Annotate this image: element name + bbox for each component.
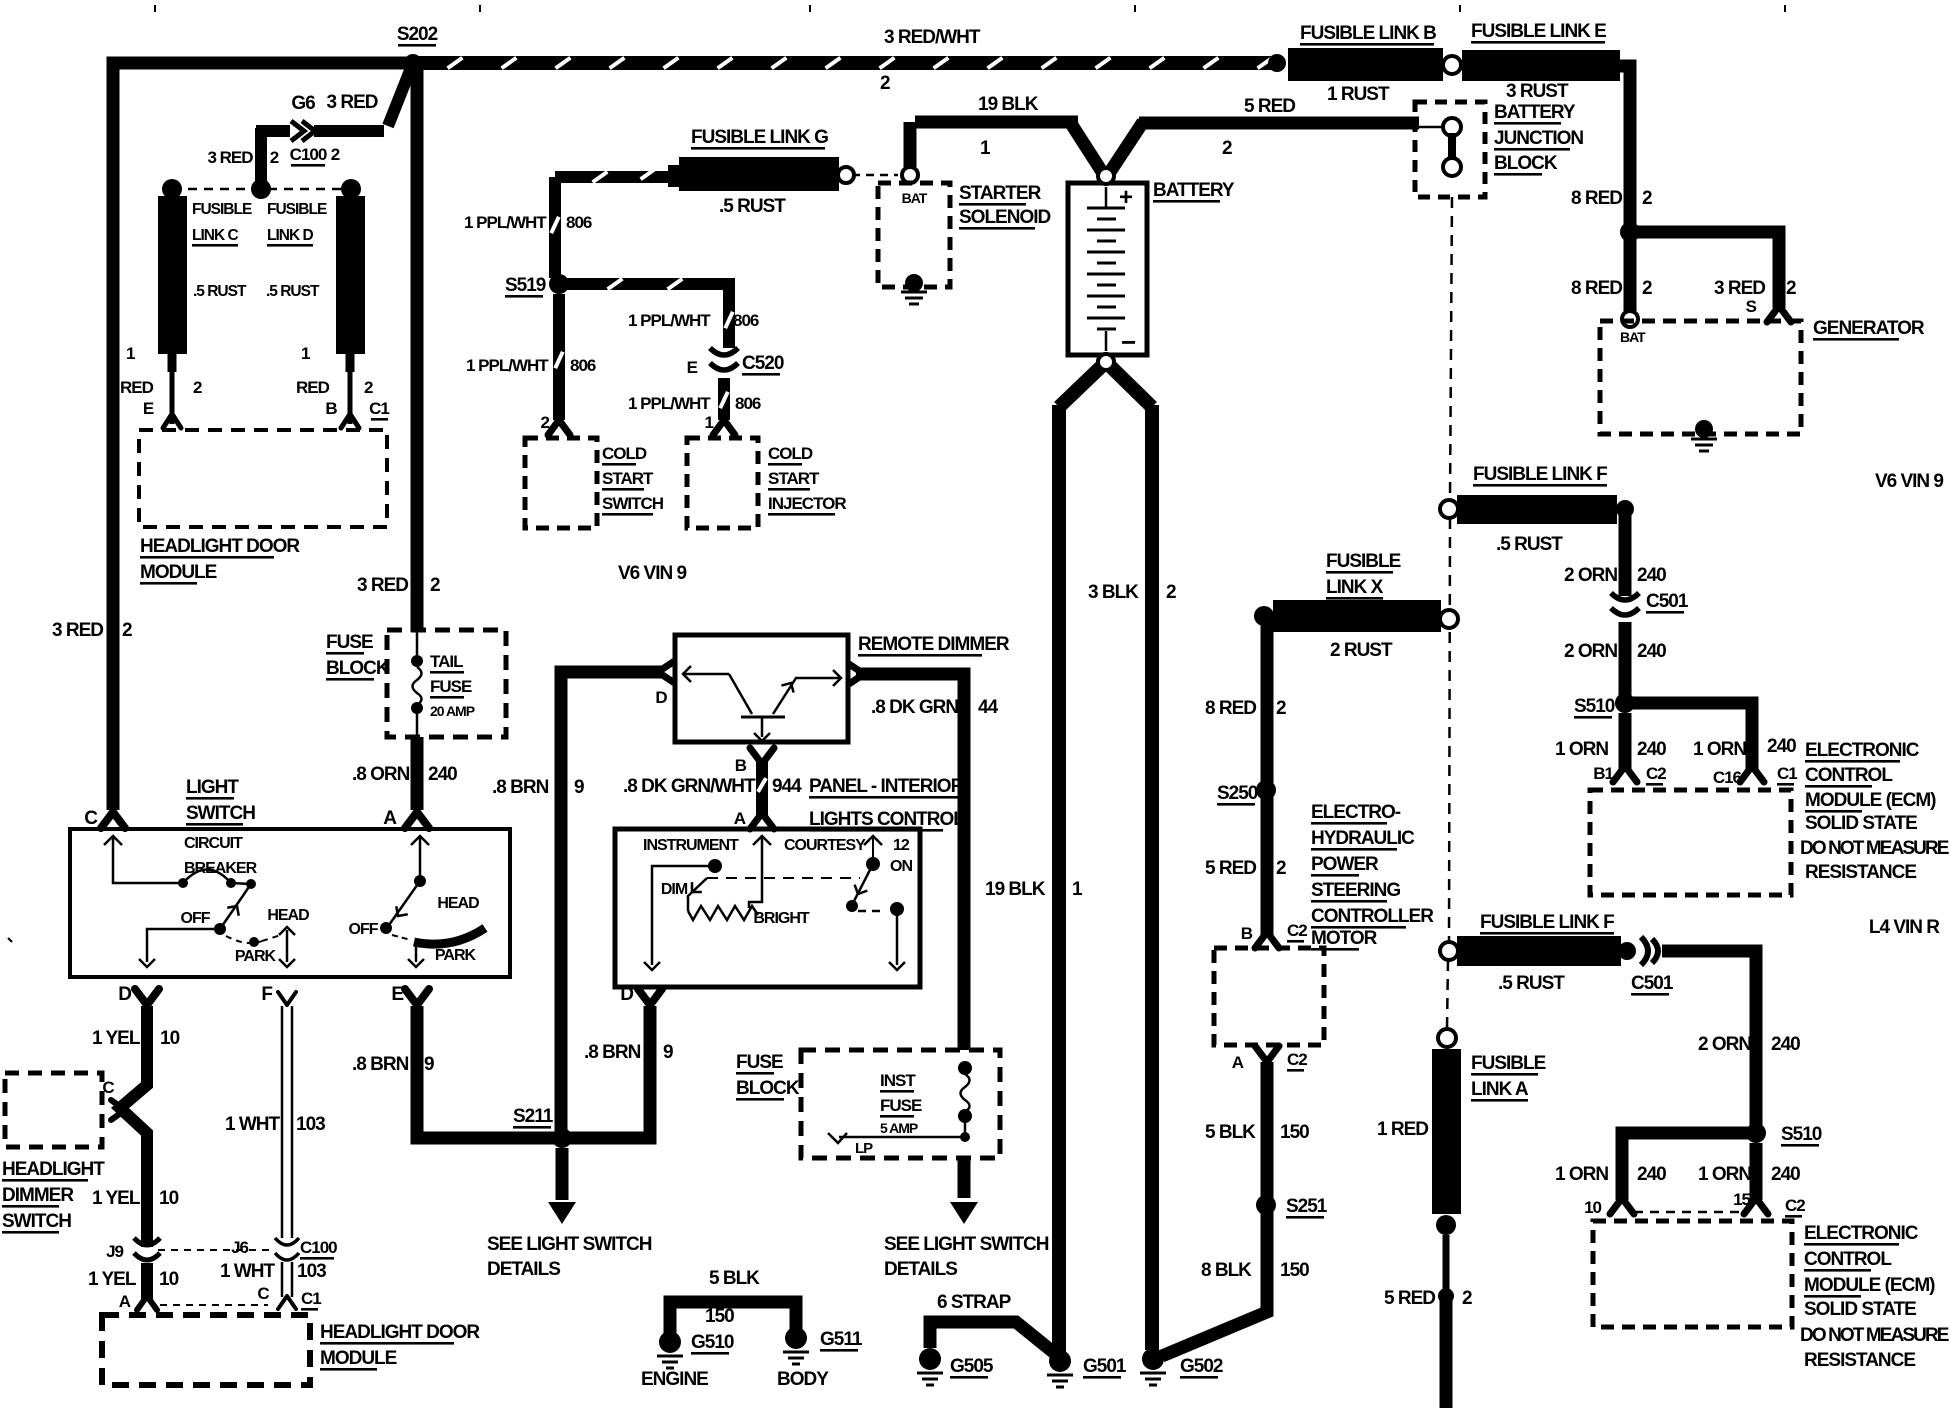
svg-text:INST: INST xyxy=(880,1071,916,1090)
svg-text:.8 BRN: .8 BRN xyxy=(492,777,549,798)
svg-text:POWER: POWER xyxy=(1311,854,1379,875)
svg-text:10: 10 xyxy=(1584,1198,1601,1217)
svg-text:8 RED: 8 RED xyxy=(1205,698,1256,719)
svg-text:.8 DK GRN: .8 DK GRN xyxy=(871,697,958,718)
svg-text:J9: J9 xyxy=(106,1242,123,1261)
svg-text:9: 9 xyxy=(574,777,584,798)
svg-text:SOLID STATE: SOLID STATE xyxy=(1804,1299,1916,1320)
svg-text:HYDRAULIC: HYDRAULIC xyxy=(1311,828,1415,849)
svg-text:.8 BRN: .8 BRN xyxy=(584,1042,641,1063)
svg-text:BREAKER: BREAKER xyxy=(184,860,258,877)
svg-text:S510: S510 xyxy=(1781,1124,1822,1145)
svg-text:C: C xyxy=(257,1284,269,1303)
svg-text:G505: G505 xyxy=(950,1356,994,1377)
svg-text:ENGINE: ENGINE xyxy=(641,1369,708,1390)
svg-text:C1: C1 xyxy=(1777,764,1797,783)
svg-text:E: E xyxy=(687,358,698,377)
svg-text:ELECTRONIC: ELECTRONIC xyxy=(1804,1223,1919,1244)
svg-text:DO NOT MEASURE: DO NOT MEASURE xyxy=(1800,838,1949,859)
svg-text:240: 240 xyxy=(1771,1164,1800,1185)
svg-text:BATTERY: BATTERY xyxy=(1153,180,1235,201)
svg-text:BATTERY: BATTERY xyxy=(1494,102,1576,123)
svg-text:1 RUST: 1 RUST xyxy=(1327,84,1390,105)
svg-text:FUSIBLE LINK B: FUSIBLE LINK B xyxy=(1300,23,1436,44)
svg-text:1: 1 xyxy=(705,413,714,432)
svg-text:1 ORN: 1 ORN xyxy=(1698,1164,1751,1185)
svg-text:RED: RED xyxy=(120,378,154,397)
svg-text:BAT: BAT xyxy=(1620,329,1646,345)
svg-text:2: 2 xyxy=(364,378,373,397)
svg-text:ON: ON xyxy=(890,858,912,875)
svg-text:BLOCK: BLOCK xyxy=(326,658,390,679)
svg-text:19 BLK: 19 BLK xyxy=(978,94,1039,115)
svg-text:.5 RUST: .5 RUST xyxy=(266,283,320,300)
svg-text:DIM: DIM xyxy=(661,881,688,898)
svg-text:3 BLK: 3 BLK xyxy=(1088,582,1139,603)
svg-text:3 RED: 3 RED xyxy=(1714,278,1765,299)
svg-text:STEERING: STEERING xyxy=(1311,880,1400,901)
svg-text:LIGHT: LIGHT xyxy=(186,777,239,798)
svg-text:.5 RUST: .5 RUST xyxy=(1496,534,1563,555)
svg-text:1 WHT: 1 WHT xyxy=(225,1114,281,1135)
svg-text:1 RED: 1 RED xyxy=(1377,1119,1428,1140)
svg-text:C501: C501 xyxy=(1646,591,1689,612)
svg-text:MODULE (ECM): MODULE (ECM) xyxy=(1805,790,1936,811)
svg-text:C: C xyxy=(84,808,98,829)
svg-text:.8 BRN: .8 BRN xyxy=(352,1054,409,1075)
svg-text:FUSIBLE LINK F: FUSIBLE LINK F xyxy=(1480,912,1614,933)
svg-text:S202: S202 xyxy=(397,24,438,45)
svg-text:150: 150 xyxy=(1280,1260,1309,1281)
svg-text:G501: G501 xyxy=(1083,1356,1127,1377)
svg-text:BLOCK: BLOCK xyxy=(1494,153,1558,174)
svg-text:G6: G6 xyxy=(291,93,315,114)
svg-text:FUSIBLE: FUSIBLE xyxy=(1471,1053,1546,1074)
svg-text:SWITCH: SWITCH xyxy=(186,803,255,824)
svg-text:FUSIBLE: FUSIBLE xyxy=(192,201,252,218)
svg-text:240: 240 xyxy=(1637,565,1666,586)
svg-text:3 RED: 3 RED xyxy=(207,148,253,167)
svg-text:BAT: BAT xyxy=(902,190,928,206)
svg-text:START: START xyxy=(768,469,820,488)
svg-text:1 ORN: 1 ORN xyxy=(1555,1164,1608,1185)
svg-text:COLD: COLD xyxy=(768,444,813,463)
svg-text:OFF: OFF xyxy=(181,910,211,927)
svg-text:S251: S251 xyxy=(1286,1196,1328,1217)
svg-text:LINK X: LINK X xyxy=(1326,577,1384,598)
svg-text:COLD: COLD xyxy=(602,444,647,463)
svg-text:240: 240 xyxy=(1637,739,1666,760)
svg-text:J6: J6 xyxy=(231,1238,248,1257)
svg-text:D: D xyxy=(655,688,667,707)
svg-text:FUSE: FUSE xyxy=(430,677,472,696)
svg-text:240: 240 xyxy=(428,764,457,785)
svg-text:A: A xyxy=(1232,1053,1244,1072)
svg-text:1 PPL/WHT: 1 PPL/WHT xyxy=(628,394,711,413)
svg-text:240: 240 xyxy=(1637,1164,1666,1185)
svg-text:A: A xyxy=(734,809,746,828)
svg-text:B: B xyxy=(325,399,337,418)
svg-text:44: 44 xyxy=(978,697,999,718)
svg-text:S211: S211 xyxy=(513,1106,554,1127)
svg-text:15: 15 xyxy=(1733,1190,1750,1209)
svg-text:MODULE: MODULE xyxy=(140,562,217,583)
svg-text:B: B xyxy=(1241,924,1253,943)
svg-text:DO NOT MEASURE: DO NOT MEASURE xyxy=(1800,1325,1949,1346)
svg-text:2 ORN: 2 ORN xyxy=(1564,565,1617,586)
svg-text:806: 806 xyxy=(570,356,596,375)
svg-text:START: START xyxy=(602,469,654,488)
svg-text:SEE LIGHT SWITCH: SEE LIGHT SWITCH xyxy=(487,1234,652,1255)
svg-text:2: 2 xyxy=(193,378,202,397)
svg-text:3 RED: 3 RED xyxy=(327,92,378,113)
svg-text:2: 2 xyxy=(1166,582,1176,603)
svg-text:E: E xyxy=(391,984,403,1005)
svg-text:240: 240 xyxy=(1771,1034,1800,1055)
svg-text:1 PPL/WHT: 1 PPL/WHT xyxy=(466,356,549,375)
svg-text:S: S xyxy=(1746,297,1757,316)
svg-text:V6 VIN 9: V6 VIN 9 xyxy=(1875,471,1943,492)
svg-text:1: 1 xyxy=(301,344,310,363)
svg-text:FUSE: FUSE xyxy=(736,1052,783,1073)
svg-text:G502: G502 xyxy=(1180,1356,1223,1377)
svg-text:1 ORN: 1 ORN xyxy=(1693,739,1746,760)
svg-text:.8 ORN: .8 ORN xyxy=(352,764,410,785)
svg-text:5 RED: 5 RED xyxy=(1244,96,1295,117)
svg-text:S250: S250 xyxy=(1217,783,1258,804)
svg-text:2: 2 xyxy=(1276,698,1286,719)
svg-text:LINK C: LINK C xyxy=(192,227,238,244)
svg-text:V6 VIN 9: V6 VIN 9 xyxy=(618,563,686,584)
svg-text:REMOTE DIMMER: REMOTE DIMMER xyxy=(858,634,1010,655)
svg-text:C2: C2 xyxy=(1287,921,1307,940)
svg-text:2: 2 xyxy=(122,620,132,641)
svg-text:FUSIBLE: FUSIBLE xyxy=(267,201,327,218)
svg-text:9: 9 xyxy=(663,1042,673,1063)
svg-text:C: C xyxy=(102,1078,114,1097)
svg-text:5 AMP: 5 AMP xyxy=(880,1120,918,1136)
svg-text:10: 10 xyxy=(159,1269,179,1290)
svg-text:FUSE: FUSE xyxy=(880,1096,922,1115)
svg-text:G511: G511 xyxy=(820,1329,863,1350)
svg-text:PARK: PARK xyxy=(235,948,277,965)
svg-text:BRIGHT: BRIGHT xyxy=(753,910,810,927)
svg-text:RED: RED xyxy=(296,378,330,397)
svg-text:1: 1 xyxy=(126,344,135,363)
svg-text:HEADLIGHT: HEADLIGHT xyxy=(2,1159,105,1180)
svg-text:S519: S519 xyxy=(505,275,546,296)
svg-text:SWITCH: SWITCH xyxy=(602,494,664,513)
svg-text:CONTROL: CONTROL xyxy=(1804,1249,1892,1270)
svg-text:C100: C100 xyxy=(290,145,327,164)
svg-text:C16: C16 xyxy=(1713,768,1742,787)
svg-text:6 STRAP: 6 STRAP xyxy=(937,1292,1012,1313)
svg-text:1 YEL: 1 YEL xyxy=(92,1188,141,1209)
svg-text:INJECTOR: INJECTOR xyxy=(768,494,846,513)
svg-text:OFF: OFF xyxy=(349,921,379,938)
svg-text:2: 2 xyxy=(1276,858,1286,879)
svg-text:TAIL: TAIL xyxy=(430,652,463,671)
svg-text:103: 103 xyxy=(297,1261,326,1282)
svg-text:1 YEL: 1 YEL xyxy=(88,1269,137,1290)
svg-text:L4 VIN R: L4 VIN R xyxy=(1869,917,1940,938)
svg-text:LINK A: LINK A xyxy=(1471,1079,1529,1100)
svg-text:2 ORN: 2 ORN xyxy=(1564,641,1617,662)
svg-text:B1: B1 xyxy=(1593,764,1613,783)
svg-text:JUNCTION: JUNCTION xyxy=(1494,128,1583,149)
svg-text:1 YEL: 1 YEL xyxy=(92,1028,141,1049)
svg-text:FUSIBLE: FUSIBLE xyxy=(1326,551,1401,572)
svg-text:2 RUST: 2 RUST xyxy=(1330,640,1393,661)
svg-text:2: 2 xyxy=(1462,1288,1472,1309)
svg-text:FUSE: FUSE xyxy=(326,632,373,653)
svg-text:2: 2 xyxy=(331,145,340,164)
svg-text:.5 RUST: .5 RUST xyxy=(719,196,786,217)
svg-text:B: B xyxy=(735,756,747,775)
svg-text:2: 2 xyxy=(1222,138,1232,159)
svg-text:E: E xyxy=(143,399,154,418)
svg-text:.8 DK GRN/WHT: .8 DK GRN/WHT xyxy=(623,776,756,797)
svg-text:DETAILS: DETAILS xyxy=(487,1259,560,1280)
svg-text:2: 2 xyxy=(1786,278,1796,299)
svg-text:SWITCH: SWITCH xyxy=(2,1211,71,1232)
svg-text:HEADLIGHT DOOR: HEADLIGHT DOOR xyxy=(320,1322,480,1343)
svg-text:2: 2 xyxy=(270,148,279,167)
svg-text:1 PPL/WHT: 1 PPL/WHT xyxy=(464,213,547,232)
svg-text:CIRCUIT: CIRCUIT xyxy=(184,835,243,852)
svg-text:LP: LP xyxy=(855,1140,873,1157)
svg-text:5 RED: 5 RED xyxy=(1205,858,1256,879)
svg-text:2: 2 xyxy=(1642,278,1652,299)
svg-text:DIMMER: DIMMER xyxy=(2,1185,74,1206)
svg-text:1 PPL/WHT: 1 PPL/WHT xyxy=(628,311,711,330)
svg-text:19 BLK: 19 BLK xyxy=(985,879,1046,900)
svg-text:C100: C100 xyxy=(300,1238,337,1257)
svg-text:3 RUST: 3 RUST xyxy=(1506,81,1569,102)
svg-text:2: 2 xyxy=(1642,188,1652,209)
svg-text:2: 2 xyxy=(880,73,890,94)
svg-text:806: 806 xyxy=(735,394,761,413)
svg-text:HEADLIGHT DOOR: HEADLIGHT DOOR xyxy=(140,536,300,557)
svg-text:8 BLK: 8 BLK xyxy=(1201,1260,1252,1281)
svg-text:FUSIBLE LINK G: FUSIBLE LINK G xyxy=(691,127,828,148)
svg-text:SOLID STATE: SOLID STATE xyxy=(1805,813,1917,834)
svg-text:A: A xyxy=(383,808,397,829)
svg-text:PARK: PARK xyxy=(435,947,477,964)
svg-text:1 WHT: 1 WHT xyxy=(220,1261,276,1282)
svg-text:C2: C2 xyxy=(1646,764,1666,783)
svg-text:COURTESY: COURTESY xyxy=(784,837,866,854)
svg-text:CONTROLLER: CONTROLLER xyxy=(1311,906,1434,927)
svg-text:ELECTRO-: ELECTRO- xyxy=(1311,802,1401,823)
svg-text:D: D xyxy=(118,984,131,1005)
svg-text:3 RED: 3 RED xyxy=(52,620,103,641)
svg-text:12: 12 xyxy=(893,837,910,854)
svg-text:1: 1 xyxy=(1072,879,1083,900)
svg-text:BLOCK: BLOCK xyxy=(736,1078,800,1099)
svg-text:240: 240 xyxy=(1767,736,1796,757)
svg-text:8 RED: 8 RED xyxy=(1571,278,1622,299)
svg-text:PANEL - INTERIOR: PANEL - INTERIOR xyxy=(809,776,965,797)
svg-text:FUSIBLE LINK E: FUSIBLE LINK E xyxy=(1471,21,1606,42)
svg-text:STARTER: STARTER xyxy=(959,183,1042,204)
svg-text:C520: C520 xyxy=(742,353,784,374)
svg-text:G510: G510 xyxy=(691,1332,734,1353)
svg-text:MODULE (ECM): MODULE (ECM) xyxy=(1804,1275,1935,1296)
svg-text:20 AMP: 20 AMP xyxy=(430,703,475,719)
svg-text:LINK D: LINK D xyxy=(267,227,313,244)
svg-text:−: − xyxy=(1121,327,1136,357)
svg-text:FUSIBLE LINK F: FUSIBLE LINK F xyxy=(1473,464,1607,485)
svg-text:CONTROL: CONTROL xyxy=(1805,765,1893,786)
svg-text:2 ORN: 2 ORN xyxy=(1698,1034,1751,1055)
svg-text:F: F xyxy=(261,984,272,1005)
svg-text:HEAD: HEAD xyxy=(267,907,309,924)
svg-text:806: 806 xyxy=(733,311,759,330)
svg-text:SEE LIGHT SWITCH: SEE LIGHT SWITCH xyxy=(884,1234,1049,1255)
svg-text:10: 10 xyxy=(160,1028,180,1049)
svg-text:SOLENOID: SOLENOID xyxy=(959,207,1051,228)
svg-text:103: 103 xyxy=(296,1114,325,1135)
svg-text:.5 RUST: .5 RUST xyxy=(1498,973,1565,994)
svg-text:RESISTANCE: RESISTANCE xyxy=(1804,1350,1915,1371)
svg-text:C1: C1 xyxy=(369,399,389,418)
svg-text:9: 9 xyxy=(424,1054,434,1075)
svg-text:944: 944 xyxy=(772,776,802,797)
svg-text:240: 240 xyxy=(1637,641,1666,662)
svg-text:C501: C501 xyxy=(1631,973,1674,994)
svg-text:1 ORN: 1 ORN xyxy=(1555,739,1608,760)
svg-text:BODY: BODY xyxy=(777,1369,829,1390)
svg-text:GENERATOR: GENERATOR xyxy=(1813,318,1925,339)
svg-text:ELECTRONIC: ELECTRONIC xyxy=(1805,740,1920,761)
svg-text:5 BLK: 5 BLK xyxy=(709,1268,760,1289)
svg-text:.5 RUST: .5 RUST xyxy=(193,283,247,300)
svg-text:150: 150 xyxy=(705,1306,734,1327)
svg-text:1: 1 xyxy=(980,138,991,159)
svg-text:C2: C2 xyxy=(1287,1050,1307,1069)
svg-text:806: 806 xyxy=(566,213,592,232)
svg-text:RESISTANCE: RESISTANCE xyxy=(1805,862,1916,883)
svg-text:C1: C1 xyxy=(301,1289,321,1308)
svg-text:MODULE: MODULE xyxy=(320,1348,397,1369)
svg-text:5 BLK: 5 BLK xyxy=(1205,1122,1256,1143)
svg-text:3 RED/WHT: 3 RED/WHT xyxy=(884,27,981,48)
svg-text:D: D xyxy=(620,984,633,1005)
svg-text:HEAD: HEAD xyxy=(437,895,479,912)
svg-text:150: 150 xyxy=(1280,1122,1309,1143)
svg-text:8 RED: 8 RED xyxy=(1571,188,1622,209)
svg-text:INSTRUMENT: INSTRUMENT xyxy=(643,837,739,854)
svg-text:C2: C2 xyxy=(1785,1196,1805,1215)
svg-text:2: 2 xyxy=(430,575,440,596)
svg-text:10: 10 xyxy=(159,1188,179,1209)
svg-text:DETAILS: DETAILS xyxy=(884,1259,957,1280)
svg-text:3 RED: 3 RED xyxy=(357,575,408,596)
svg-text:S510: S510 xyxy=(1574,696,1615,717)
svg-text:A: A xyxy=(119,1292,131,1311)
svg-text:5 RED: 5 RED xyxy=(1384,1288,1435,1309)
